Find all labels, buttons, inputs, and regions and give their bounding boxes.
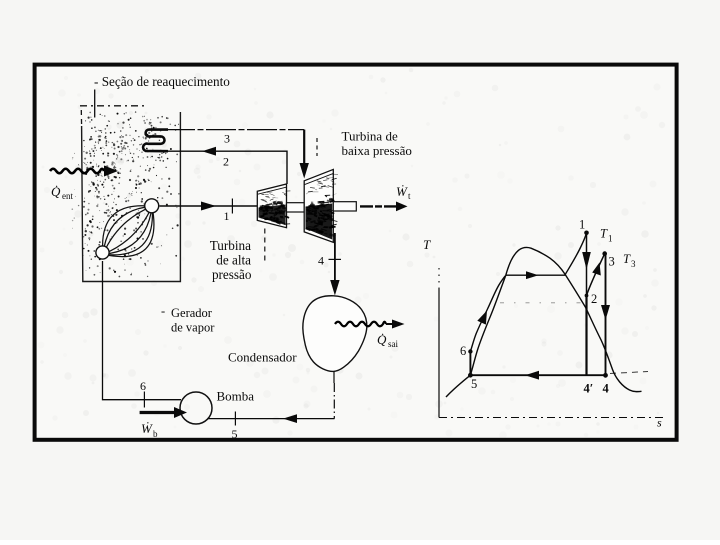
dashed pointer for HP turbine label [264,229,266,262]
boiler drum upper [145,199,159,213]
wire: line 2 (HP exhaust to reheater) [146,151,287,184]
boiler tube bundle lens [103,206,154,257]
svg-text:4: 4 [603,382,610,396]
scan mottle [242,122,248,128]
node 1 tick [231,199,233,214]
reheater coil [143,130,168,152]
pump circle [180,392,212,424]
expansion line 1 to 2 [586,233,588,296]
wire: main steam line 1 [160,205,258,207]
svg-text:5: 5 [232,427,238,441]
arrow on 6-line [477,311,487,325]
pump work arrow Wb [140,411,176,414]
svg-text:6: 6 [140,379,146,393]
dashed pointer cross for reheat section [94,90,96,118]
svg-text:T: T [623,252,631,266]
border frame [35,65,677,440]
svg-text:1: 1 [224,209,230,223]
wire: condensate return line 5 [208,418,335,420]
svg-text:sai: sai [388,339,398,349]
wire: feedwater line 6 [103,261,182,400]
svg-text:s: s [657,416,662,430]
svg-text:Bomba: Bomba [217,389,255,404]
svg-text:Gerador: Gerador [171,306,213,320]
boiler drum lower [96,246,109,259]
pump line 5 to 6 [469,352,471,376]
svg-text:T: T [423,237,431,252]
dashed line right of 4 [610,372,648,374]
svg-text:3: 3 [609,255,615,269]
svg-text:6: 6 [460,344,466,358]
svg-text:Condensador: Condensador [228,350,297,365]
wire: line 4 [334,233,336,283]
dashed isotherm inside dome [500,302,583,304]
reheat line 2 to 3 [587,254,605,296]
svg-text:- Seção de reaquecimento: - Seção de reaquecimento [94,74,230,89]
node 4 tick [329,258,342,260]
svg-text:Ẇ: Ẇ [141,421,153,436]
node 5 tick [234,412,236,426]
saturation dome curve [446,247,642,397]
LP inlet drop line 3 [303,130,305,166]
svg-text:de vapor: de vapor [171,321,215,335]
heat rejection wavy arrow Qsai [335,322,386,327]
expansion line 3 to 4 [605,254,607,376]
svg-text:1: 1 [579,218,585,232]
arrow on line 1 [201,202,216,211]
svg-text:Turbina de: Turbina de [342,129,398,144]
svg-text:de alta: de alta [216,253,251,268]
Ts diagram T axis [438,268,440,288]
svg-text:ent: ent [62,191,73,201]
expansion continuation 2 to 4prime [585,296,587,376]
dashed pointer for LP turbine label [316,138,318,156]
svg-text:4′: 4′ [584,382,594,396]
svg-text:pressão: pressão [212,267,252,282]
svg-text:T: T [600,227,608,241]
boiling line with right arrow [506,274,566,276]
svg-text:Q̇: Q̇ [377,332,387,347]
compressed liquid line 6 to saturation [470,276,505,352]
Ts diagram s axis (dashed) [439,417,667,419]
superheat curve to point 1 [565,233,586,275]
condenser blob [303,296,367,372]
output shaft [333,202,356,211]
svg-text:2: 2 [591,292,597,306]
svg-text:-: - [161,304,165,318]
turbine HP (alta pressao) [257,184,286,228]
svg-text:Turbina: Turbina [210,238,251,253]
svg-text:b: b [153,429,158,439]
arrow on line 2 [202,147,216,156]
condensation line 4 to 5 [470,374,605,376]
svg-text:3: 3 [224,132,230,146]
node 6 tick [143,392,145,408]
heat input wavy arrow Qent [50,169,104,174]
svg-text:5: 5 [471,377,477,391]
condenser downpipe [333,371,335,383]
svg-text:baixa pressão: baixa pressão [342,143,412,158]
svg-text:2: 2 [223,155,229,169]
turbine LP (baixa pressao) [304,169,333,242]
state point dots [584,231,589,236]
svg-text:3: 3 [631,259,636,269]
svg-text:Ẇ: Ẇ [396,184,408,199]
work output arrow Wt [360,205,398,207]
furnace stipple texture [72,111,180,277]
wire: line 3 (reheater to LP turbine) [165,129,304,131]
svg-text:4: 4 [318,254,324,268]
svg-text:Q̇: Q̇ [51,184,61,199]
shaft HP-LP [287,203,305,212]
steam generator box [80,105,145,107]
svg-text:1: 1 [608,234,613,244]
